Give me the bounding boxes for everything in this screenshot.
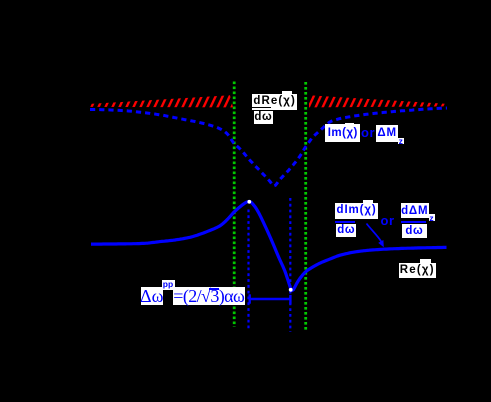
blue dotted guide at dip (289, 198, 291, 332)
delta-omega pp bar (250, 298, 291, 300)
green guide line right (304, 82, 307, 331)
dashed curve Im(chi)/dMz (90, 108, 447, 186)
label Re(chi) (420, 259, 431, 264)
curved arrow (367, 224, 382, 242)
peak marker (247, 200, 251, 204)
dip marker (289, 288, 293, 292)
blue dotted guide at peak (247, 210, 249, 330)
solid curve dIm(chi)/dw (91, 202, 447, 291)
label delta-omega-pp equation (serif) (141, 287, 164, 306)
red hatched wedge left (85, 90, 238, 112)
label Im(chi) or dMz (345, 123, 355, 127)
label dIm(chi)/dw (363, 200, 372, 203)
green guide line left (233, 82, 236, 328)
red hatched wedge right (304, 90, 452, 112)
label dRe(chi)/dw (282, 91, 293, 96)
